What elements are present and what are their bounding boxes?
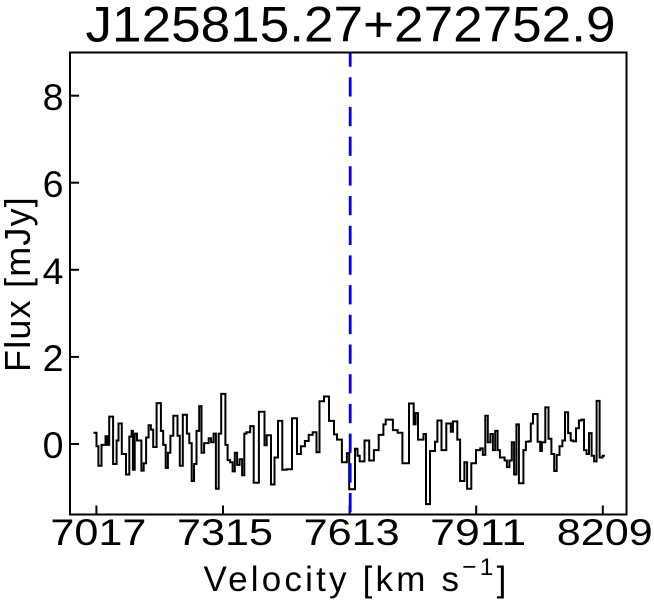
y tick labels [43, 76, 64, 466]
svg-text:Velocity [km s−1]: Velocity [km s−1] [203, 554, 509, 599]
x ticks [96, 506, 602, 514]
dashed blue reference line [349, 54, 352, 514]
svg-text:4: 4 [43, 250, 64, 292]
svg-text:Flux [mJy]: Flux [mJy] [0, 196, 38, 372]
svg-text:7613: 7613 [304, 511, 400, 553]
svg-text:7315: 7315 [177, 511, 273, 553]
spectrum step line [94, 394, 606, 504]
x tick labels [50, 511, 652, 553]
svg-text:8: 8 [43, 76, 64, 118]
svg-text:6: 6 [43, 163, 64, 205]
svg-text:0: 0 [43, 424, 64, 466]
svg-text:8209: 8209 [557, 511, 653, 553]
svg-text:2: 2 [43, 337, 64, 379]
svg-text:7017: 7017 [50, 511, 146, 553]
y ticks [71, 96, 79, 444]
svg-text:J125815.27+272752.9: J125815.27+272752.9 [86, 0, 616, 53]
axes frame [70, 53, 627, 515]
svg-text:7911: 7911 [430, 511, 526, 553]
